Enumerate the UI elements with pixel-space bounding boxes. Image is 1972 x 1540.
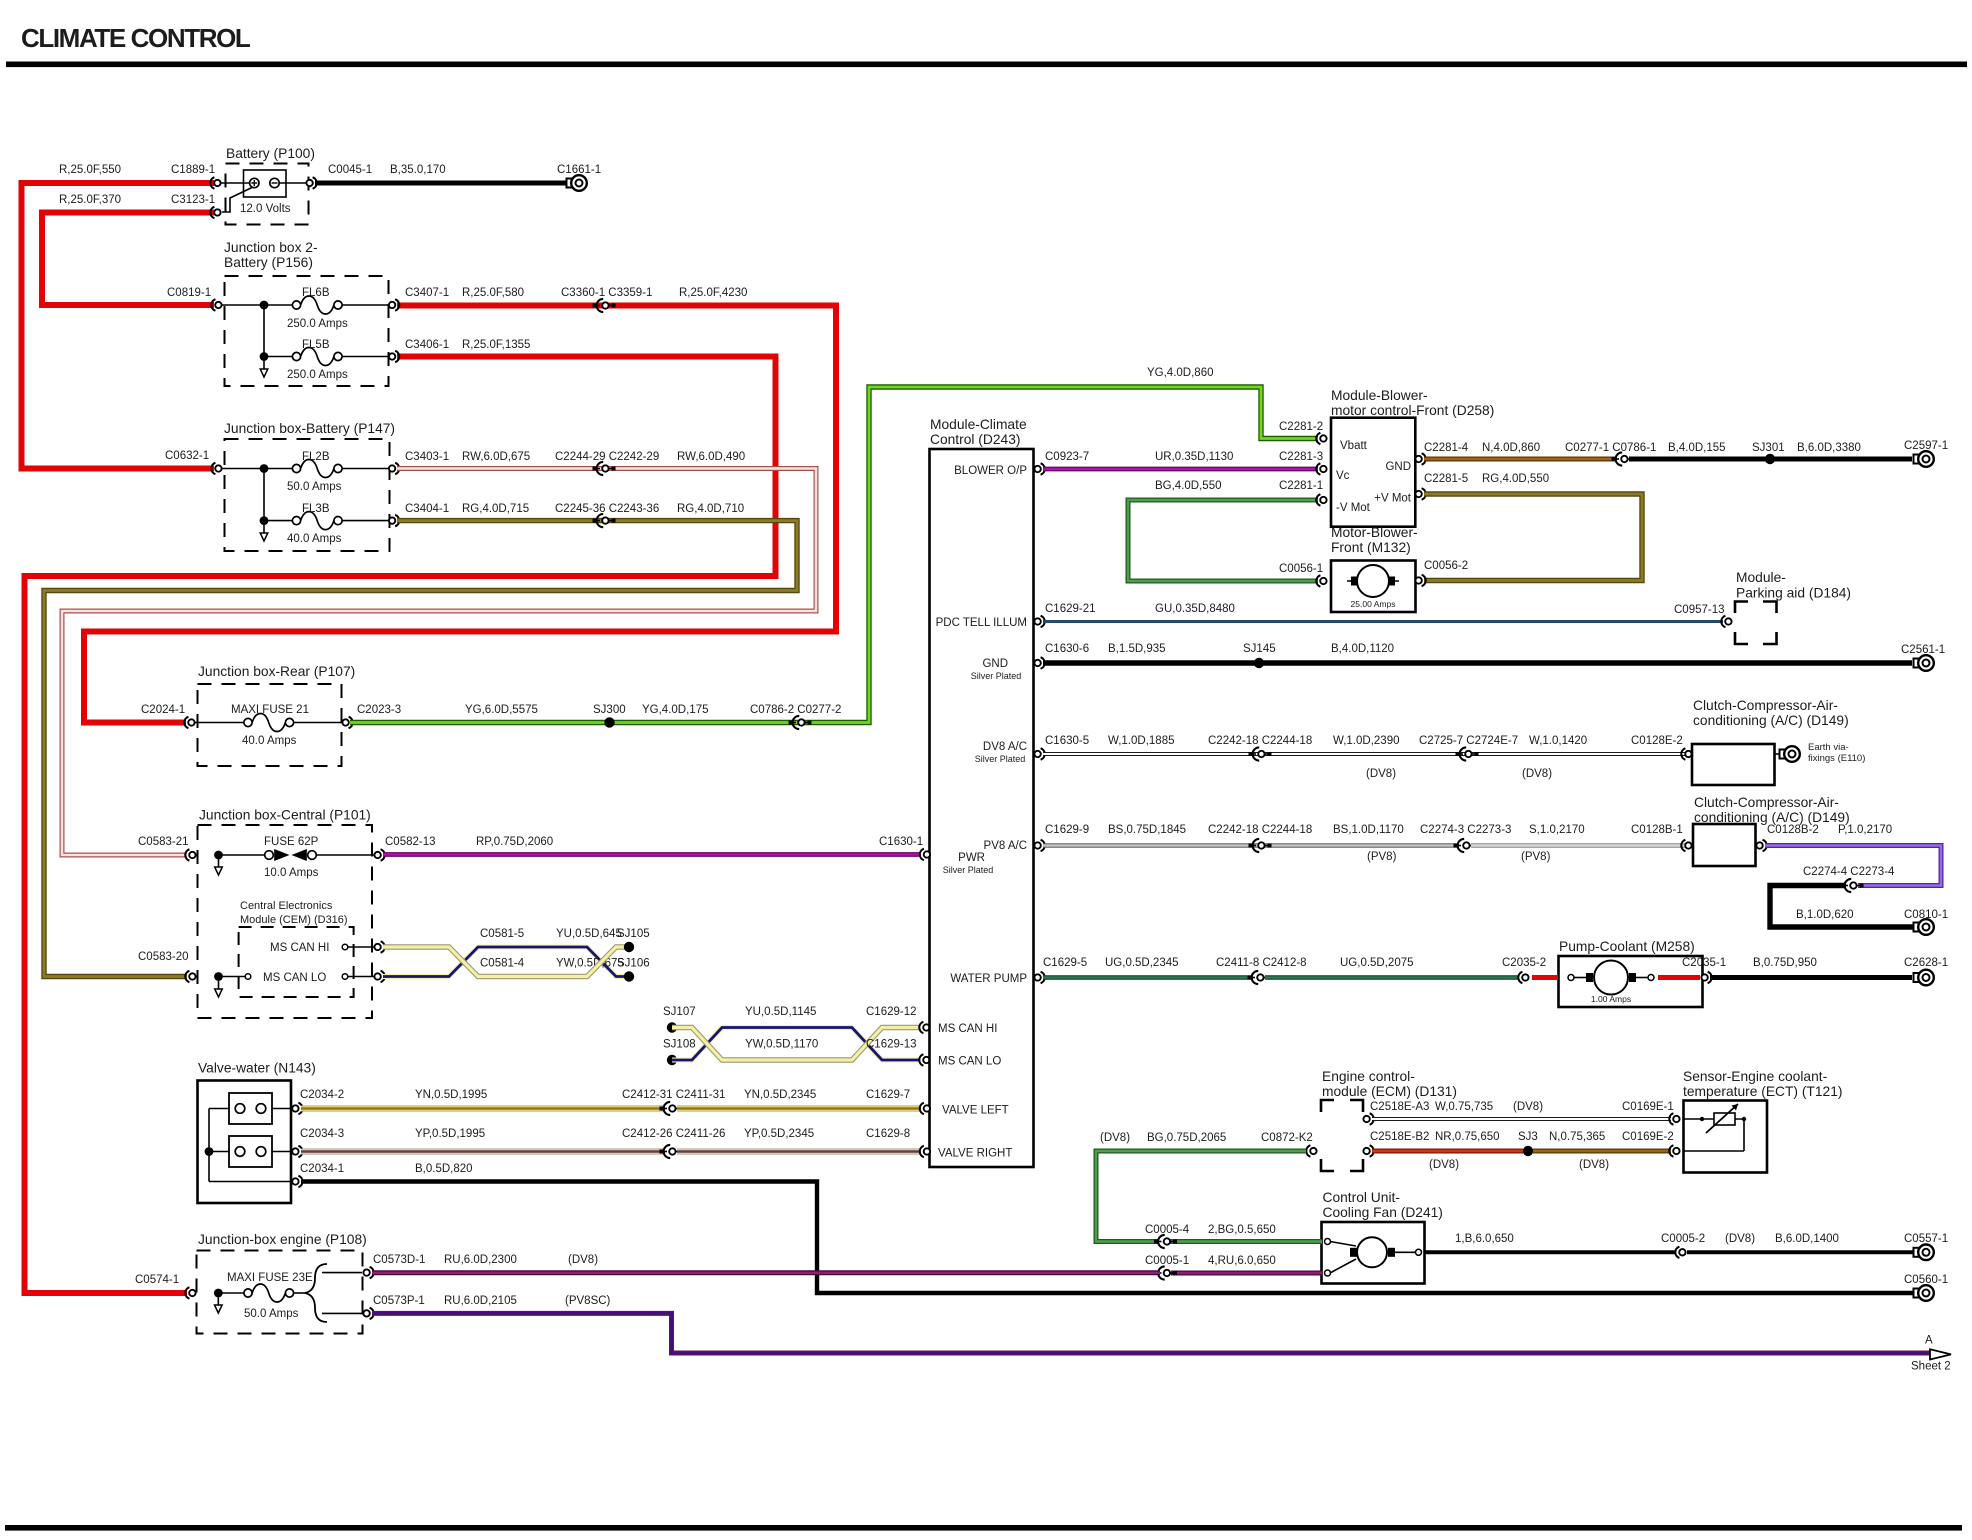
ring terminal C0810-1	[1904, 909, 1948, 935]
svg-text:RG,4.0D,710: RG,4.0D,710	[677, 503, 744, 515]
svg-text:C0056-2: C0056-2	[1424, 560, 1468, 572]
svg-text:Cooling Fan (D241): Cooling Fan (D241)	[1323, 1205, 1443, 1220]
ring terminal C2628-1	[1904, 957, 1948, 985]
svg-text:C0560-1: C0560-1	[1904, 1274, 1948, 1286]
svg-text:4,RU,6.0,650: 4,RU,6.0,650	[1208, 1255, 1276, 1267]
svg-text:(DV8): (DV8)	[1725, 1233, 1755, 1245]
wire B,6.0D,1400	[1687, 1233, 1914, 1252]
connector C2518E-A3	[1363, 1101, 1429, 1125]
wire GU,0.35D,8480	[1043, 603, 1723, 622]
svg-text:BS,1.0D,1170: BS,1.0D,1170	[1333, 824, 1404, 836]
svg-text:C3403-1: C3403-1	[405, 451, 449, 463]
svg-text:W,1.0D,1885: W,1.0D,1885	[1108, 735, 1174, 747]
solder joint SJ301	[1752, 442, 1785, 464]
svg-text:Central Electronics: Central Electronics	[240, 900, 333, 912]
svg-text:A: A	[1925, 1335, 1933, 1347]
svg-text:C0957-13: C0957-13	[1674, 604, 1725, 616]
svg-text:C0573P-1: C0573P-1	[373, 1295, 425, 1307]
svg-text:MS CAN HI: MS CAN HI	[270, 942, 329, 954]
svg-text:250.0 Amps: 250.0 Amps	[287, 369, 348, 381]
wire R,25.0F,4230 FL6B to junction rear	[84, 306, 836, 723]
fuse MAXI FUSE 23E 50.0 Amps	[227, 1272, 313, 1320]
connector C0583-20	[138, 951, 196, 982]
connector C0045-1	[306, 164, 372, 189]
svg-text:C1629-13: C1629-13	[866, 1039, 917, 1051]
connector C0573D-1	[363, 1254, 425, 1278]
svg-text:P,1.0,2170: P,1.0,2170	[1838, 824, 1892, 836]
svg-text:Module-Climate: Module-Climate	[930, 417, 1027, 432]
svg-text:RU,6.0D,2105: RU,6.0D,2105	[444, 1295, 517, 1307]
svg-text:MS CAN LO: MS CAN LO	[263, 972, 326, 984]
node junction FL2B	[260, 464, 269, 473]
svg-text:C2024-1: C2024-1	[141, 704, 185, 716]
svg-text:C1889-1: C1889-1	[171, 164, 215, 176]
svg-text:conditioning (A/C) (D149): conditioning (A/C) (D149)	[1693, 713, 1849, 728]
wire RU,6.0D,2300 purple	[372, 1254, 1160, 1273]
svg-text:Motor-Blower-: Motor-Blower-	[1331, 525, 1418, 540]
svg-text:W,0.75,735: W,0.75,735	[1435, 1101, 1493, 1113]
wire YG,6.0D,5575 / YG,4.0D,175 / YG,4.0D,860	[350, 367, 1318, 723]
solder joint SJ107	[663, 1006, 696, 1033]
svg-text:50.0 Amps: 50.0 Amps	[287, 481, 342, 493]
svg-text:B,0.5D,820: B,0.5D,820	[415, 1163, 473, 1175]
connector C3404-1	[389, 503, 529, 526]
connector C2035-2	[1502, 957, 1546, 983]
wire R,25.0F,550 battery feed	[22, 164, 215, 469]
ring terminal C1661-1	[557, 164, 601, 191]
svg-text:C2034-2: C2034-2	[300, 1089, 344, 1101]
svg-text:C0583-21: C0583-21	[138, 836, 189, 848]
top rule bar	[6, 62, 1967, 68]
connector C0056-2	[1415, 560, 1468, 586]
svg-text:SJ105: SJ105	[617, 928, 650, 940]
svg-text:BLOWER O/P: BLOWER O/P	[954, 465, 1027, 477]
wire YP,0.5D,2345	[677, 1128, 920, 1152]
svg-text:B,0.75D,950: B,0.75D,950	[1753, 957, 1817, 969]
node junction FL6B	[260, 301, 269, 310]
svg-text:C0872-K2: C0872-K2	[1261, 1132, 1313, 1144]
svg-text:C1629-21: C1629-21	[1045, 603, 1096, 615]
ring terminal C2561-1	[1901, 644, 1945, 671]
svg-text:module (ECM) (D131): module (ECM) (D131)	[1322, 1084, 1457, 1099]
svg-text:GND: GND	[1385, 461, 1411, 473]
svg-text:YG,4.0D,860: YG,4.0D,860	[1147, 367, 1213, 379]
svg-text:C0581-5: C0581-5	[480, 928, 524, 940]
svg-text:Sensor-Engine coolant-: Sensor-Engine coolant-	[1683, 1069, 1827, 1084]
svg-text:C0056-1: C0056-1	[1279, 563, 1323, 575]
node junction MS CAN LO	[214, 972, 223, 981]
svg-text:C2242-18 C2244-18: C2242-18 C2244-18	[1208, 735, 1312, 747]
svg-text:B,4.0D,1120: B,4.0D,1120	[1331, 643, 1394, 655]
connector C3406-1	[389, 339, 531, 362]
svg-text:Module-: Module-	[1736, 570, 1786, 585]
solder joint SJ105	[617, 928, 650, 952]
svg-text:C2281-3: C2281-3	[1279, 451, 1323, 463]
wire BS,0.75D,1845 gray	[1043, 824, 1459, 863]
connector pair C2242-18 C2244-18	[1208, 735, 1312, 761]
connector C1630-6 pin GND	[1034, 643, 1089, 669]
svg-text:UR,0.35D,1130: UR,0.35D,1130	[1155, 451, 1233, 463]
svg-text:C0786-2 C0277-2: C0786-2 C0277-2	[750, 704, 841, 716]
svg-text:Junction-box engine (P108): Junction-box engine (P108)	[198, 1232, 367, 1247]
connector pair C0005-1	[1154, 1266, 1177, 1279]
svg-text:UG,0.5D,2075: UG,0.5D,2075	[1340, 957, 1414, 969]
connector C1629-7 pin VALVE LEFT	[920, 1103, 930, 1114]
connector C0923-7 pin BLOWER O/P	[1034, 451, 1089, 475]
svg-text:C2628-1: C2628-1	[1904, 957, 1948, 969]
connector C0128E-2	[1631, 735, 1692, 760]
svg-text:FL5B: FL5B	[302, 339, 330, 351]
fuse MAXI FUSE 21 40.0 Amps	[231, 704, 309, 747]
motor blower front M132	[1331, 525, 1418, 612]
svg-text:C2034-3: C2034-3	[300, 1128, 344, 1140]
connector pair C2274-4 C2273-4	[1803, 866, 1895, 892]
connector C0573P-1	[363, 1295, 424, 1319]
svg-text:R,25.0F,1355: R,25.0F,1355	[462, 339, 530, 351]
svg-text:C2274-3 C2273-3: C2274-3 C2273-3	[1420, 824, 1511, 836]
wire B,0.75D,950	[1710, 957, 1912, 978]
svg-text:1,B,6.0,650: 1,B,6.0,650	[1455, 1233, 1514, 1245]
wire RU,6.0D,2105 purple to sheet 2	[372, 1295, 1930, 1353]
connector pair C2411-8 C2412-8	[1216, 957, 1307, 984]
solder joint SJ106	[617, 958, 650, 982]
ring terminal earth via fixings E110	[1780, 742, 1866, 764]
svg-text:CLIMATE CONTROL: CLIMATE CONTROL	[21, 23, 251, 53]
svg-text:R,25.0F,4230: R,25.0F,4230	[679, 287, 747, 299]
svg-text:Silver Plated: Silver Plated	[971, 671, 1022, 681]
svg-text:(DV8): (DV8)	[1579, 1159, 1609, 1171]
svg-text:RP,0.75D,2060: RP,0.75D,2060	[476, 836, 553, 848]
svg-text:RU,6.0D,2300: RU,6.0D,2300	[444, 1254, 517, 1266]
svg-text:B,6.0D,1400: B,6.0D,1400	[1775, 1233, 1839, 1245]
svg-text:C2035-2: C2035-2	[1502, 957, 1546, 969]
svg-text:PWR: PWR	[958, 852, 985, 864]
connector C2281-2	[1316, 433, 1326, 444]
svg-text:BS,0.75D,1845: BS,0.75D,1845	[1108, 824, 1186, 836]
svg-text:+V Mot: +V Mot	[1374, 493, 1412, 505]
svg-text:12.0 Volts: 12.0 Volts	[240, 203, 291, 215]
svg-text:2,BG,0.5,650: 2,BG,0.5,650	[1208, 1224, 1276, 1236]
engine control module ECM D131	[1321, 1069, 1457, 1171]
svg-text:UG,0.5D,2345: UG,0.5D,2345	[1105, 957, 1179, 969]
svg-text:C1630-5: C1630-5	[1045, 735, 1089, 747]
svg-text:Battery (P156): Battery (P156)	[224, 255, 313, 270]
fuse FUSE 62P 10.0 Amps	[264, 836, 319, 879]
svg-text:YP,0.5D,1995: YP,0.5D,1995	[415, 1128, 485, 1140]
svg-text:C0923-7: C0923-7	[1045, 451, 1089, 463]
wire R,25.0F,370	[42, 194, 214, 305]
connector C1629-21 pin PDC TELL ILLUM	[1034, 603, 1095, 627]
wire RP,0.75D,2060	[383, 836, 920, 855]
wire RG,4.0D,550	[1424, 473, 1642, 581]
wire YW,0.5D,675 twisted pale yellow	[383, 947, 625, 977]
svg-text:YU,0.5D,645: YU,0.5D,645	[556, 928, 622, 940]
connector C1629-12	[866, 1006, 930, 1033]
control unit cooling fan D241	[1322, 1190, 1443, 1284]
svg-text:RW,6.0D,490: RW,6.0D,490	[677, 451, 745, 463]
connector C0872-K2	[1261, 1132, 1317, 1157]
svg-text:(DV8): (DV8)	[1513, 1101, 1543, 1113]
svg-text:C1629-5: C1629-5	[1043, 957, 1087, 969]
connector C1629-13	[866, 1039, 930, 1066]
svg-text:C2597-1: C2597-1	[1904, 440, 1948, 452]
svg-text:25.00 Amps: 25.00 Amps	[1351, 599, 1396, 609]
svg-text:C0573D-1: C0573D-1	[373, 1254, 425, 1266]
svg-text:C0581-4: C0581-4	[480, 958, 525, 970]
svg-text:Junction box 2-: Junction box 2-	[224, 240, 318, 255]
connector C1629-5 pin WATER PUMP	[1034, 957, 1087, 983]
wire B,35.0,170	[315, 164, 567, 183]
svg-text:R,25.0F,370: R,25.0F,370	[59, 194, 121, 206]
wire W,0.75,735 white	[1372, 1101, 1671, 1119]
wire R,25.0F,1355 FL5B to junction engine	[25, 357, 776, 1294]
svg-text:(DV8): (DV8)	[568, 1254, 598, 1266]
svg-text:NR,0.75,650: NR,0.75,650	[1435, 1131, 1500, 1143]
svg-text:B,6.0D,3380: B,6.0D,3380	[1797, 442, 1861, 454]
wire B,1.0D,620	[1770, 886, 1914, 928]
svg-text:(DV8): (DV8)	[1522, 768, 1552, 780]
wire N,0.75,365 brown	[1533, 1131, 1671, 1171]
svg-text:C3407-1: C3407-1	[405, 287, 449, 299]
svg-text:VALVE RIGHT: VALVE RIGHT	[938, 1148, 1012, 1160]
svg-text:W,1.0,1420: W,1.0,1420	[1529, 735, 1587, 747]
solder joint SJ145	[1243, 643, 1276, 668]
module parking aid D184	[1735, 570, 1851, 644]
ground symbol P156	[260, 360, 268, 377]
svg-text:C2561-1: C2561-1	[1901, 644, 1945, 656]
svg-text:DV8 A/C: DV8 A/C	[983, 741, 1027, 753]
node junction FUSE 62P	[214, 851, 223, 860]
solder joint SJ3	[1518, 1131, 1538, 1156]
svg-text:C0005-1: C0005-1	[1145, 1255, 1189, 1267]
svg-text:temperature (ECT) (T121): temperature (ECT) (T121)	[1683, 1084, 1842, 1099]
svg-text:C1629-7: C1629-7	[866, 1089, 910, 1101]
connector C2024-1	[141, 704, 195, 728]
svg-text:C2035-1: C2035-1	[1682, 957, 1726, 969]
fuse FL6B 250.0 Amps	[287, 287, 390, 330]
svg-text:MAXI FUSE 23E: MAXI FUSE 23E	[227, 1272, 313, 1284]
connector C2034-2	[292, 1089, 344, 1114]
svg-text:C0632-1: C0632-1	[165, 450, 209, 462]
svg-text:C2518E-B2: C2518E-B2	[1370, 1131, 1429, 1143]
svg-text:N,4.0D,860: N,4.0D,860	[1482, 442, 1540, 454]
ground symbol P101 CEM	[215, 980, 223, 997]
svg-text:YG,4.0D,175: YG,4.0D,175	[642, 704, 708, 716]
svg-text:FL2B: FL2B	[302, 451, 330, 463]
svg-text:B,35.0,170: B,35.0,170	[390, 164, 446, 176]
svg-text:C2518E-A3: C2518E-A3	[1370, 1101, 1429, 1113]
connector C0819-1	[167, 287, 222, 311]
wire NR,0.75,650	[1372, 1131, 1523, 1171]
svg-text:FUSE 62P: FUSE 62P	[264, 836, 319, 848]
wire W,1.0D,1885 white	[1043, 735, 1687, 780]
wire RG,4.0D,715/710 olive	[44, 521, 797, 977]
svg-text:C3360-1 C3359-1: C3360-1 C3359-1	[561, 287, 652, 299]
connector pair C0005-4	[1154, 1235, 1177, 1248]
wire BG,0.75D,2065 green	[1096, 1132, 1306, 1242]
clutch compressor A/C D149 upper	[1692, 698, 1849, 785]
pump coolant M258	[1532, 939, 1703, 1007]
svg-text:Pump-Coolant (M258): Pump-Coolant (M258)	[1559, 939, 1695, 954]
svg-text:C3404-1: C3404-1	[405, 503, 449, 515]
svg-text:Control (D243): Control (D243)	[930, 432, 1020, 447]
svg-text:(PV8SC): (PV8SC)	[565, 1295, 611, 1307]
connector C2281-5 pin +V Mot	[1415, 473, 1468, 500]
bottom rule bar	[5, 1525, 1962, 1531]
svg-text:R,25.0F,580: R,25.0F,580	[462, 287, 524, 299]
svg-text:motor control-Front (D258): motor control-Front (D258)	[1331, 403, 1494, 418]
connector C1630-1 pin PWR	[879, 836, 930, 860]
connector C0169E-1	[1622, 1101, 1680, 1125]
wire S,1.0,2170 silver	[1471, 824, 1687, 863]
connector C0056-1	[1279, 563, 1327, 587]
connector pair C2242-18 C2244-18 PV8	[1249, 839, 1272, 852]
svg-text:Clutch-Compressor-Air-: Clutch-Compressor-Air-	[1693, 698, 1838, 713]
connector pair C2412-26 C2411-26	[622, 1128, 725, 1158]
wire YU,0.5D,645 twisted navy	[383, 928, 625, 977]
svg-text:C2274-4 C2273-4: C2274-4 C2273-4	[1803, 866, 1895, 878]
svg-text:C0582-13: C0582-13	[385, 836, 436, 848]
svg-text:Junction box-Rear (P107): Junction box-Rear (P107)	[198, 664, 355, 679]
svg-text:C0045-1: C0045-1	[328, 164, 372, 176]
svg-text:-V Mot: -V Mot	[1336, 502, 1371, 514]
svg-text:B,4.0D,155: B,4.0D,155	[1668, 442, 1726, 454]
module climate control D243	[930, 417, 1034, 1167]
svg-text:Control Unit-: Control Unit-	[1323, 1190, 1400, 1205]
svg-text:C0574-1: C0574-1	[135, 1274, 179, 1286]
svg-text:Parking aid (D184): Parking aid (D184)	[1736, 586, 1851, 601]
svg-text:C1629-9: C1629-9	[1045, 824, 1089, 836]
connector C2281-4 pin GND	[1415, 442, 1468, 465]
svg-text:Module-Blower-: Module-Blower-	[1331, 388, 1428, 403]
svg-text:(PV8): (PV8)	[1521, 851, 1551, 863]
svg-text:C0169E-2: C0169E-2	[1622, 1131, 1674, 1143]
svg-text:C1629-8: C1629-8	[866, 1128, 910, 1140]
connector C3407-1	[389, 287, 524, 311]
connector C0005-2	[1661, 1233, 1705, 1258]
svg-text:S,1.0,2170: S,1.0,2170	[1529, 824, 1585, 836]
connector C0957-13	[1674, 604, 1732, 627]
junction box rear P107	[194, 664, 355, 766]
connector C1629-9 pin PV8 A/C	[1034, 824, 1089, 851]
svg-text:C1630-1: C1630-1	[879, 836, 923, 848]
svg-text:FL6B: FL6B	[302, 287, 330, 299]
svg-text:C2725-7 C2724E-7: C2725-7 C2724E-7	[1419, 735, 1518, 747]
svg-text:C2412-31 C2411-31: C2412-31 C2411-31	[622, 1089, 725, 1101]
module blower motor control front D258	[1331, 388, 1494, 527]
svg-text:C0005-2: C0005-2	[1661, 1233, 1705, 1245]
connector C0581-4	[374, 958, 524, 983]
svg-text:C0128B-2: C0128B-2	[1767, 824, 1819, 836]
svg-text:C2281-1: C2281-1	[1279, 480, 1323, 492]
ring terminal C0560-1	[1904, 1274, 1948, 1301]
fuse FL2B 50.0 Amps	[287, 451, 390, 493]
connector pair C3360-1 C3359-1	[561, 287, 747, 312]
wire YN,0.5D,1995	[301, 1089, 665, 1109]
connector pair C2274-3 C2273-3	[1420, 824, 1511, 852]
svg-text:PV8 A/C: PV8 A/C	[984, 840, 1027, 852]
connector C1629-8 pin VALVE RIGHT	[920, 1146, 930, 1157]
svg-text:Vc: Vc	[1336, 470, 1350, 482]
svg-text:40.0 Amps: 40.0 Amps	[287, 533, 342, 545]
svg-text:C2023-3: C2023-3	[357, 704, 401, 716]
node junction N143	[205, 1147, 214, 1156]
svg-text:C2281-4: C2281-4	[1424, 442, 1469, 454]
wire 2,BG,0.5,650 green	[1145, 1224, 1322, 1242]
node junction FL3B	[260, 516, 269, 525]
svg-text:SJ300: SJ300	[593, 704, 626, 716]
svg-text:10.0 Amps: 10.0 Amps	[264, 867, 319, 879]
node junction FL5B	[260, 352, 269, 361]
wire UR,0.35D,1130	[1043, 451, 1323, 469]
svg-text:WATER PUMP: WATER PUMP	[950, 973, 1027, 985]
svg-text:YW,0.5D,675: YW,0.5D,675	[556, 958, 624, 970]
wire YU,0.5D,1145 twisted navy	[672, 1006, 920, 1060]
svg-text:C1629-12: C1629-12	[866, 1006, 917, 1018]
svg-text:RW,6.0D,675: RW,6.0D,675	[462, 451, 530, 463]
connector pair C2725-7 C2724E-7	[1419, 735, 1518, 761]
svg-text:YN,0.5D,1995: YN,0.5D,1995	[415, 1089, 487, 1101]
svg-text:Silver Plated: Silver Plated	[975, 754, 1026, 764]
connector C1889-1	[171, 164, 221, 189]
wire YP,0.5D,1995	[301, 1128, 665, 1152]
connector C0583-21	[138, 836, 196, 861]
ground symbol P108	[215, 1296, 223, 1313]
svg-text:C1661-1: C1661-1	[557, 164, 601, 176]
wire UG,0.5D,2345	[1043, 957, 1253, 978]
svg-text:(DV8): (DV8)	[1100, 1132, 1130, 1144]
junction box battery P147	[221, 421, 395, 551]
svg-text:C3406-1: C3406-1	[405, 339, 449, 351]
junction box central P101	[198, 808, 376, 1019]
svg-text:(PV8): (PV8)	[1367, 851, 1397, 863]
svg-text:Junction box-Battery (P147): Junction box-Battery (P147)	[224, 421, 395, 436]
svg-text:C0810-1: C0810-1	[1904, 909, 1948, 921]
connector C2035-1	[1682, 957, 1726, 983]
connector C2034-1	[292, 1163, 344, 1187]
svg-text:C0005-4: C0005-4	[1145, 1224, 1190, 1236]
wire B,0.5D,820	[301, 1163, 1914, 1293]
connector pair C0786-2 C0277-2	[750, 704, 841, 729]
connector C0582-13	[374, 836, 435, 861]
connector C0128B-2	[1756, 824, 1818, 851]
svg-text:VALVE LEFT: VALVE LEFT	[942, 1105, 1009, 1117]
fuse FL3B 40.0 Amps	[287, 503, 390, 545]
connector C2281-3	[1316, 463, 1326, 474]
off-sheet arrow A Sheet 2	[1911, 1335, 1951, 1373]
svg-text:C3123-1: C3123-1	[171, 194, 215, 206]
svg-text:C0128E-2: C0128E-2	[1631, 735, 1683, 747]
battery P100	[219, 146, 315, 225]
wire YN,0.5D,2345	[677, 1089, 920, 1109]
svg-text:C2034-1: C2034-1	[300, 1163, 344, 1175]
connector C0581-5	[374, 928, 524, 953]
junction box engine P108	[197, 1232, 367, 1334]
svg-text:C0557-1: C0557-1	[1904, 1233, 1948, 1245]
svg-text:Valve-water (N143): Valve-water (N143)	[198, 1061, 316, 1076]
connector C2518E-B2	[1363, 1131, 1429, 1157]
svg-text:MAXI FUSE 21: MAXI FUSE 21	[231, 704, 309, 716]
connector C3403-1	[389, 451, 530, 474]
svg-text:MS CAN LO: MS CAN LO	[938, 1056, 1001, 1068]
svg-text:YN,0.5D,2345: YN,0.5D,2345	[744, 1089, 816, 1101]
svg-text:C2411-8 C2412-8: C2411-8 C2412-8	[1216, 957, 1307, 969]
svg-text:Junction box-Central (P101): Junction box-Central (P101)	[199, 808, 371, 823]
svg-text:C2242-18 C2244-18: C2242-18 C2244-18	[1208, 824, 1312, 836]
svg-text:SJ106: SJ106	[617, 958, 650, 970]
ground symbol P101 fuse	[215, 858, 223, 875]
junction box 2 - battery P156	[221, 240, 389, 386]
